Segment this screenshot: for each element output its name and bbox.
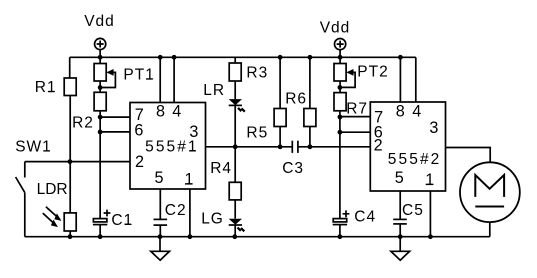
capacitor C3 — [292, 141, 298, 153]
junction R6 bottom — [308, 144, 313, 149]
wire SW1 to pin 2 of 555#1 — [25, 161, 130, 163]
junction C4 on ground rail — [338, 234, 343, 239]
junction Vdd1 on rail — [98, 55, 103, 60]
junction C1 on ground rail — [98, 234, 103, 239]
LDR light arrows — [43, 207, 62, 227]
resistor R4 — [229, 182, 241, 200]
junction PT2 wiper tap — [338, 85, 343, 90]
svg-text:555#2: 555#2 — [388, 151, 442, 168]
junction pin 4 wire on rail (555#1) — [172, 55, 177, 60]
wire ground bottom rail — [25, 236, 490, 238]
label SW1 — [15, 139, 52, 156]
svg-text:R7: R7 — [346, 100, 368, 117]
timer IC U2 555#2 — [370, 102, 445, 191]
svg-text:Vdd: Vdd — [320, 19, 351, 36]
svg-text:Vdd: Vdd — [84, 13, 115, 30]
svg-text:C2: C2 — [165, 202, 187, 219]
capacitor C5 — [393, 219, 407, 236]
wire pin 7 of 555#1 — [100, 116, 130, 118]
junction pin 8 wire on rail (555#1) — [158, 55, 163, 60]
wire motor to ground rail — [489, 222, 491, 237]
capacitor C2 — [154, 219, 168, 236]
wire R1 to LDR — [69, 96, 71, 213]
svg-text:C3: C3 — [282, 160, 304, 177]
svg-text:LG: LG — [201, 211, 224, 228]
wire pin 3 of 555#2 to motor — [446, 148, 491, 163]
svg-text:2: 2 — [135, 153, 144, 171]
potentiometer PT1 — [94, 64, 106, 93]
svg-text:R6: R6 — [285, 90, 307, 107]
svg-text:R4: R4 — [210, 160, 232, 177]
wire pin 5 of 555#1 to C2 — [159, 189, 161, 219]
junction R6 on rail — [308, 55, 313, 60]
resistor R3 — [229, 63, 241, 81]
label R1 — [35, 79, 57, 96]
svg-text:C4: C4 — [354, 208, 376, 225]
svg-text:C5: C5 — [402, 202, 424, 219]
switch SW1 — [16, 162, 25, 237]
wire Vdd top rail — [70, 56, 416, 58]
wire pin 6 of 555#2 — [340, 131, 370, 133]
label C1 — [111, 212, 133, 229]
LED LG emission arrows — [238, 228, 245, 232]
motor M — [460, 162, 520, 222]
potentiometer PT2 — [334, 64, 346, 93]
wire R7 down to C4 — [339, 111, 341, 219]
PT1 wiper arrow — [100, 69, 115, 88]
wire rail corner down to R1 — [69, 57, 71, 78]
resistor R5 — [274, 57, 286, 147]
svg-text:SW1: SW1 — [15, 139, 52, 156]
svg-text:R5: R5 — [246, 124, 268, 141]
wire pin 7 of 555#2 — [340, 116, 370, 118]
svg-text:8: 8 — [156, 103, 165, 121]
resistor R1 — [64, 78, 76, 96]
wire node to R4 — [234, 147, 236, 183]
svg-text:1: 1 — [185, 171, 194, 189]
timer IC U1 555#1 — [130, 103, 206, 190]
junction SW1 wire and LDR branch — [68, 159, 73, 164]
svg-text:PT1: PT1 — [123, 67, 154, 84]
junction LDR on ground rail — [68, 234, 73, 239]
power Vdd symbol (right) — [335, 39, 346, 58]
svg-text:4: 4 — [412, 103, 421, 121]
wire pin 8 of 555#1 to rail — [159, 57, 161, 102]
junction R7 to pin 7 — [338, 115, 343, 120]
junction R5 bottom — [278, 144, 283, 149]
ground symbol (right) — [391, 237, 410, 261]
resistor R6 — [304, 57, 316, 147]
junction C5/ground symbol on ground rail — [398, 234, 403, 239]
svg-text:R2: R2 — [72, 114, 94, 131]
wire pin 4 of 555#1 to rail — [173, 57, 175, 102]
junction R2 to pin 6 — [98, 130, 103, 135]
wire R3 to LED LR — [234, 81, 236, 99]
junction R5 on rail — [278, 55, 283, 60]
svg-text:2: 2 — [374, 137, 383, 155]
wire pin 1 of 555#2 to ground rail — [429, 191, 431, 237]
resistor R2 — [94, 92, 106, 111]
LED LR — [229, 99, 242, 147]
resistor R7 — [334, 93, 346, 111]
wire pin 6 of 555#1 — [100, 131, 130, 133]
power Vdd symbol (left) — [95, 38, 106, 57]
wire pin 8 of 555#2 to rail — [399, 57, 401, 102]
PT2 wiper arrow — [340, 69, 355, 87]
svg-text:1: 1 — [425, 171, 434, 189]
svg-text:C1: C1 — [111, 212, 133, 229]
label PT1 — [123, 67, 154, 84]
capacitor C1 (electrolytic) — [93, 210, 111, 237]
node pin 3 of 555#1 to R4 — [233, 144, 238, 149]
svg-text:5: 5 — [395, 169, 404, 187]
svg-text:LDR: LDR — [37, 181, 68, 198]
junction pin 1 of 555#2 on ground rail — [428, 234, 433, 239]
svg-text:3: 3 — [429, 119, 438, 137]
junction R7 to pin 6 — [338, 130, 343, 135]
svg-text:8: 8 — [396, 103, 405, 121]
wire R2 down to C1 — [99, 111, 101, 219]
svg-text:R3: R3 — [246, 65, 268, 82]
junction C2/ground symbol on ground rail — [158, 234, 163, 239]
capacitor C4 (electrolytic) — [333, 210, 350, 236]
LED LG — [229, 219, 242, 237]
ground symbol (left) — [151, 237, 170, 261]
junction R2 to pin 7 — [98, 115, 103, 120]
svg-text:LR: LR — [203, 82, 225, 99]
svg-text:6: 6 — [134, 122, 143, 140]
wire pin 3 of 555#1 to C3 — [206, 146, 293, 148]
junction pin 1 of 555#1 on ground rail — [188, 234, 193, 239]
wire R4 to LED LG — [234, 200, 236, 219]
wire pin 1 of 555#1 to ground rail — [189, 189, 191, 237]
LDR (light dependent resistor) — [64, 213, 76, 237]
junction pin 8 wire on rail (555#2) — [398, 55, 403, 60]
wire C3 to pin 2 of 555#2 — [298, 146, 370, 148]
LED LR emission arrows — [238, 108, 245, 112]
wire pin 4 of 555#2 to rail corner — [415, 57, 417, 102]
svg-text:5: 5 — [155, 169, 164, 187]
junction LED LG on ground rail — [232, 234, 237, 239]
svg-text:4: 4 — [172, 103, 181, 121]
wire rail to PT1 — [99, 57, 101, 63]
svg-text:555#1: 555#1 — [145, 138, 199, 155]
wire rail to PT2 — [339, 57, 341, 63]
svg-text:PT2: PT2 — [357, 64, 388, 81]
wire rail to R3 — [234, 57, 236, 63]
wire pin 5 of 555#2 to C5 — [399, 191, 401, 219]
svg-text:R1: R1 — [35, 79, 57, 96]
junction PT1 wiper tap — [98, 85, 103, 90]
junction Vdd2 on rail — [338, 55, 343, 60]
